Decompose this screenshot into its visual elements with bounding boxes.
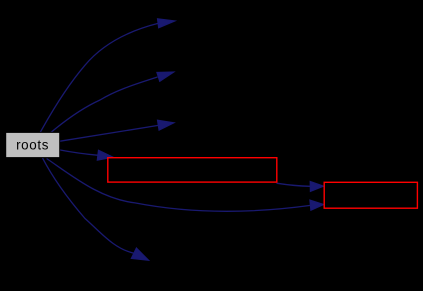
wire edge roots->node7 (bottom): [43, 158, 134, 253]
wire edge roots->rednode2 (long bottom curve): [47, 159, 311, 212]
wire edge roots->rednode1: [60, 150, 99, 155]
node roots (grey box): [6, 132, 60, 157]
wire edge roots->node1 (top): [40, 23, 158, 132]
arrowhead edge5: [310, 200, 324, 210]
node rednode1 (red border box): [108, 158, 277, 182]
arrowhead edge1: [157, 19, 175, 28]
arrowhead edge2: [157, 72, 174, 82]
arrowhead edge3: [157, 120, 174, 130]
arrowhead edge4: [97, 150, 113, 160]
node rednode2 (red border box): [324, 182, 417, 208]
arrowhead edge7: [310, 181, 324, 191]
wire edge rednode1->rednode2: [277, 183, 311, 186]
arrowhead edge6: [131, 248, 149, 261]
svg-text:roots: roots: [16, 137, 49, 152]
wire edge roots->node3: [60, 125, 158, 141]
wire edge roots->node2: [50, 77, 158, 133]
